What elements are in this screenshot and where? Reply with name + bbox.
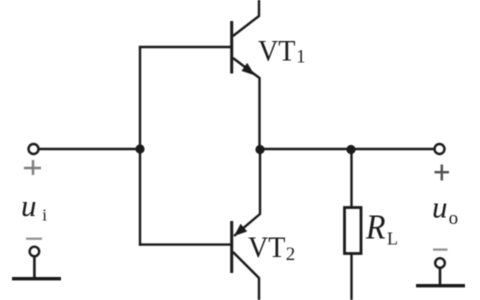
input ground terminal circle bbox=[30, 247, 40, 257]
transistor Q1 emitter arrow bbox=[242, 63, 256, 76]
wire: load bottom lead bbox=[350, 253, 352, 300]
wire: output line bbox=[260, 148, 434, 150]
transistor Q1 emitter bbox=[233, 58, 260, 149]
node: load junction dot bbox=[346, 145, 355, 154]
svg-text:L: L bbox=[387, 228, 398, 248]
output ground bar bbox=[416, 284, 465, 287]
wire: vertical base bus bbox=[139, 46, 141, 246]
svg-text:u: u bbox=[21, 188, 37, 223]
svg-text:o: o bbox=[449, 208, 459, 229]
svg-text:u: u bbox=[432, 190, 448, 225]
input ground bar bbox=[12, 277, 61, 280]
transistor Q2 emitter arrow bbox=[234, 224, 247, 236]
transistor Q2 emitter bbox=[234, 150, 260, 236]
input ground stem bbox=[33, 257, 36, 279]
transistor Q1 base bar bbox=[230, 21, 233, 74]
svg-text:VT: VT bbox=[248, 231, 286, 264]
svg-text:R: R bbox=[365, 207, 385, 246]
wire: input terminal to base node bbox=[39, 148, 140, 150]
label - (input) bbox=[26, 238, 42, 240]
svg-text:1: 1 bbox=[296, 48, 305, 68]
label + (output) bbox=[435, 165, 450, 181]
label + (input) bbox=[24, 160, 41, 175]
node: input junction dot bbox=[135, 144, 144, 153]
label - (output) bbox=[433, 249, 448, 251]
wire: VT2 base wire bbox=[139, 243, 231, 245]
svg-text:2: 2 bbox=[286, 244, 296, 265]
wire: load top lead bbox=[350, 149, 352, 207]
transistor Q1 collector bbox=[233, 0, 259, 36]
output ground terminal circle bbox=[435, 258, 445, 268]
output terminal circle (top right) bbox=[435, 144, 445, 154]
node: emitter junction dot bbox=[255, 145, 264, 154]
transistor Q2 collector bbox=[233, 252, 259, 300]
wire: VT1 base wire bbox=[139, 46, 231, 48]
output ground stem bbox=[439, 268, 442, 285]
svg-text:VT: VT bbox=[258, 35, 296, 68]
input terminal circle (top left) bbox=[29, 144, 39, 154]
resistor RL body bbox=[345, 208, 362, 254]
transistor Q2 base bar bbox=[230, 221, 233, 273]
svg-text:i: i bbox=[42, 206, 47, 225]
